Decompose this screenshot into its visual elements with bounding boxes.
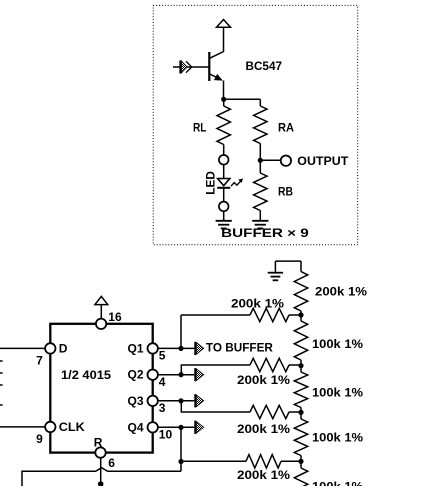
svg-text:9: 9 bbox=[36, 432, 43, 446]
node Q4 junction bbox=[178, 425, 183, 430]
resistor 200k 1% vertical top bbox=[294, 272, 307, 311]
node ladder J1 bbox=[298, 312, 303, 317]
resistor RB bbox=[254, 173, 267, 211]
wire LED to terminal 2 bbox=[223, 188, 225, 202]
wire to ground bbox=[223, 211, 225, 221]
resistor RA bbox=[254, 106, 267, 144]
svg-text:RA: RA bbox=[278, 120, 294, 134]
input arrow (to base) bbox=[179, 60, 181, 73]
node emitter junction bbox=[221, 97, 226, 102]
resistor 100k 1% #4 (cut off) bbox=[300, 461, 302, 468]
node Q2 junction bbox=[178, 372, 183, 377]
svg-text:RB: RB bbox=[278, 185, 293, 199]
node Q1 junction bbox=[178, 346, 183, 351]
power VCC triangle (pin 16) bbox=[95, 296, 108, 304]
resistor 200k row 1 bbox=[181, 314, 250, 316]
wire ground to ladder bbox=[275, 260, 301, 262]
svg-text:Q2: Q2 bbox=[127, 368, 143, 382]
pin Q2 circle bbox=[148, 370, 158, 380]
svg-text:100k 1%: 100k 1% bbox=[312, 430, 363, 444]
wire Q1 up to ladder row 1 bbox=[180, 315, 182, 348]
node ladder J2 bbox=[298, 363, 303, 368]
svg-text:TO BUFFER: TO BUFFER bbox=[206, 341, 273, 355]
wire R pin down bbox=[100, 458, 102, 486]
wire CLK input bbox=[0, 426, 46, 428]
svg-text:200k 1%: 200k 1% bbox=[237, 468, 290, 482]
dotted enclosure box bbox=[153, 5, 358, 244]
pin D circle bbox=[45, 343, 55, 353]
svg-text:R: R bbox=[94, 436, 103, 450]
transistor Q BC547 bbox=[208, 52, 210, 81]
ground (ladder top) bbox=[274, 261, 276, 273]
resistor RL bbox=[217, 106, 230, 145]
wire node to RB bbox=[259, 160, 261, 173]
buffer arrow Q3 bbox=[194, 394, 196, 407]
svg-text:LED: LED bbox=[204, 171, 218, 195]
pin Q3 circle bbox=[148, 396, 158, 406]
node R bottom bbox=[98, 481, 104, 487]
resistor 100k 1% #2 bbox=[300, 365, 302, 372]
buffer arrow Q1 bbox=[194, 342, 196, 355]
wire to OUTPUT terminal bbox=[260, 159, 280, 161]
IC U1 1/2 4015 box bbox=[50, 324, 152, 453]
svg-text:Q3: Q3 bbox=[127, 394, 143, 408]
svg-text:200k 1%: 200k 1% bbox=[315, 285, 367, 299]
svg-text:3: 3 bbox=[159, 401, 166, 415]
buffer arrow Q4 bbox=[194, 421, 196, 434]
svg-text:RL: RL bbox=[193, 120, 207, 134]
wire RB to ground bbox=[259, 211, 261, 221]
pin Q4 circle bbox=[148, 422, 158, 432]
svg-text:6: 6 bbox=[108, 456, 115, 470]
power VCC triangle (top) bbox=[217, 20, 231, 28]
svg-text:100k 1%: 100k 1% bbox=[312, 386, 363, 400]
wire RL to terminal bbox=[223, 145, 225, 156]
wire Q1 output bbox=[158, 347, 194, 349]
LED light squiggle arrow bbox=[231, 181, 241, 186]
node row 4 branch bbox=[178, 459, 183, 464]
wire pin16 bbox=[100, 305, 102, 319]
pin CLK circle bbox=[45, 422, 55, 432]
svg-text:CLK: CLK bbox=[59, 420, 85, 434]
svg-text:Q4: Q4 bbox=[127, 420, 143, 434]
wire base bbox=[173, 66, 209, 68]
resistor 100k 1% #3 bbox=[300, 412, 302, 419]
wire RA to output node bbox=[259, 144, 261, 161]
wire emitter node to RA bbox=[224, 98, 261, 100]
wire Q2 output bbox=[158, 374, 194, 376]
pin R circle bbox=[95, 447, 105, 457]
svg-text:16: 16 bbox=[108, 310, 122, 324]
pin Q1 circle bbox=[148, 343, 158, 353]
resistor 200k row 3 bbox=[250, 405, 289, 418]
svg-text:7: 7 bbox=[36, 354, 43, 368]
node ladder J4 bbox=[298, 459, 303, 464]
svg-text:200k 1%: 200k 1% bbox=[231, 297, 284, 311]
svg-text:1/2 4015: 1/2 4015 bbox=[61, 368, 111, 382]
svg-text:10: 10 bbox=[159, 428, 173, 442]
left edge stubs bbox=[0, 360, 3, 362]
resistor 100k 1% #1 bbox=[300, 315, 302, 321]
node output junction bbox=[258, 158, 263, 163]
wire terminal to LED bbox=[223, 165, 225, 179]
svg-text:Q1: Q1 bbox=[127, 341, 143, 355]
node Q3 junction bbox=[178, 398, 183, 403]
ground (LED branch) bbox=[216, 220, 232, 222]
node ladder J3 bbox=[298, 410, 303, 415]
svg-text:200k 1%: 200k 1% bbox=[237, 422, 290, 436]
wire Q3 output bbox=[158, 400, 194, 402]
wire Q3 jog to row 3 bbox=[181, 401, 250, 412]
svg-text:5: 5 bbox=[159, 349, 166, 363]
wire Q4 output bbox=[158, 426, 194, 428]
wire Q2 jog to row 2 bbox=[181, 365, 250, 375]
LED diode bbox=[218, 179, 230, 186]
svg-text:D: D bbox=[59, 341, 68, 355]
wire Q4 bus down bbox=[180, 427, 182, 471]
resistor 200k row 2 bbox=[250, 358, 289, 371]
OUTPUT terminal circle bbox=[281, 156, 291, 166]
wire D input bbox=[0, 347, 46, 349]
svg-text:OUTPUT: OUTPUT bbox=[297, 154, 349, 168]
terminal circle (LED anode) bbox=[219, 155, 229, 165]
resistor 200k row 4 bbox=[181, 460, 246, 462]
svg-text:100k 1%: 100k 1% bbox=[312, 337, 363, 351]
svg-text:100k 1%: 100k 1% bbox=[312, 479, 363, 486]
buffer arrow Q2 bbox=[194, 368, 196, 381]
terminal circle (LED cathode) bbox=[219, 202, 229, 212]
wire collector to VCC bbox=[210, 27, 224, 58]
ground (RB branch) bbox=[252, 220, 268, 222]
svg-text:200k 1%: 200k 1% bbox=[237, 373, 290, 387]
wire bottom rail with hop bbox=[22, 468, 181, 486]
svg-text:BUFFER × 9: BUFFER × 9 bbox=[221, 226, 309, 240]
pin 16 circle bbox=[96, 319, 106, 329]
svg-text:4: 4 bbox=[159, 375, 166, 389]
svg-text:BC547: BC547 bbox=[246, 59, 283, 73]
